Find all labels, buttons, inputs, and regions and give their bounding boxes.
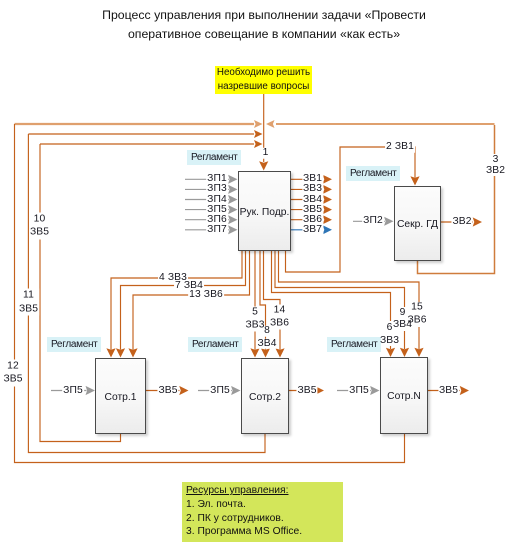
wire: 6 ЗВ3 (to Сотр.N) bbox=[272, 251, 396, 357]
stub label ЗВ2 (Секр. ГД out) bbox=[451, 217, 472, 228]
stub label ЗП5 bbox=[206, 204, 228, 215]
input stub ЗП5 (Сотр.1) bbox=[51, 386, 95, 395]
wire: 13 ЗВ6 (to Сотр.1) bbox=[128, 251, 249, 358]
wire: 5 ЗВ3 (to Сотр.2) bbox=[250, 251, 259, 358]
wire label 4 ЗВ3 bbox=[158, 273, 188, 284]
output stub ЗВ4 (Рук. Подр.) bbox=[291, 195, 332, 204]
output stub ЗВ3 (Рук. Подр.) bbox=[291, 185, 332, 194]
stub label ЗП2 bbox=[362, 216, 384, 227]
label Регламент (above Рук. Подр.) bbox=[187, 150, 241, 165]
stub label ЗВ7 bbox=[302, 225, 323, 236]
input stub ЗП1 (Рук. Подр.) bbox=[185, 175, 238, 184]
wire: request 1 (callout to Рук. Подр.) bbox=[259, 94, 268, 171]
wire: 10 ЗВ5 loop (Сотр.1 bottom to left riser) bbox=[40, 144, 121, 442]
stub label ЗВ3 bbox=[302, 184, 323, 195]
output stub ЗВ6 (Рук. Подр.) bbox=[291, 215, 332, 224]
stub label ЗП5 (Сотр.N) bbox=[348, 385, 370, 396]
process box: Рук. Подр. bbox=[238, 171, 291, 251]
wire label 15 ЗВ6 bbox=[407, 302, 426, 327]
wire label 7 ЗВ4 bbox=[174, 280, 204, 291]
input stub ЗП2 (Секр. ГД) bbox=[353, 217, 394, 226]
wire label 8 ЗВ4 bbox=[264, 326, 270, 337]
label gaps on Сотр.N wires bbox=[387, 302, 423, 346]
output stub ЗВ5 (Сотр.1) bbox=[146, 386, 189, 395]
wire: 9 ЗВ4 (to Сотр.N) bbox=[275, 251, 409, 357]
wire label 14 ЗВ6 bbox=[269, 305, 290, 330]
wire label 5 ЗВ3 bbox=[245, 307, 264, 332]
stub label ЗП3 bbox=[206, 184, 228, 195]
process box: Секр. ГД bbox=[394, 186, 441, 261]
label Регламент (above Сотр.2) bbox=[188, 337, 242, 352]
wire: 15 ЗВ6 (to Сотр.N) bbox=[279, 251, 424, 357]
output stub ЗВ2 (Секр. ГД) bbox=[441, 217, 482, 226]
wire: 11 ЗВ5 loop (Сотр.2 bottom to left riser) bbox=[28, 134, 265, 453]
stub label ЗВ5 bbox=[302, 204, 323, 215]
wire: 8 ЗВ4 (to Сотр.2) bbox=[260, 251, 270, 358]
wire label 9 ЗВ4 bbox=[393, 307, 412, 331]
label Регламент (above Сотр.1) bbox=[47, 337, 101, 352]
callout: need to solve questions (yellow) bbox=[215, 66, 312, 94]
stub label ЗП5 (Сотр.1) bbox=[62, 385, 84, 396]
stub label ЗП1 bbox=[206, 174, 228, 185]
stub label ЗВ5 (Сотр.2) bbox=[296, 385, 317, 396]
input stub ЗП6 (Рук. Подр.) bbox=[185, 215, 238, 224]
wire label 13 ЗВ6 bbox=[188, 290, 224, 301]
stub label ЗВ4 bbox=[302, 194, 323, 205]
process box: Сотр.2 bbox=[241, 358, 289, 434]
wire: 2 ЗВ1 (Рук. Подр. bottom to Секр. ГД top) bbox=[286, 147, 420, 272]
process box: Сотр.N bbox=[380, 357, 428, 434]
output stub ЗВ1 (Рук. Подр.) bbox=[291, 175, 332, 184]
wire: 3 ЗВ2 return loop (Секр. ГД bottom, right riser) bbox=[266, 120, 495, 274]
input stub ЗП3 (Рук. Подр.) bbox=[185, 185, 238, 194]
input stub ЗП5 (Сотр.N) bbox=[337, 386, 380, 395]
stub label ЗВ1 bbox=[302, 174, 323, 185]
wire label 3 ЗВ2 bbox=[485, 154, 506, 176]
input stub ЗП5 (Сотр.2) bbox=[198, 386, 241, 395]
wire: 12 ЗВ5 loop (Сотр.N bottom to left riser) bbox=[15, 124, 405, 463]
stub label ЗП4 bbox=[206, 194, 228, 205]
input stub ЗП7 (Рук. Подр.) bbox=[185, 225, 238, 234]
input stub ЗП4 (Рук. Подр.) bbox=[185, 195, 238, 204]
wire: 14 ЗВ6 (to Сотр.2) bbox=[264, 251, 285, 358]
label Регламент (above Секр. ГД) bbox=[346, 166, 400, 181]
wire: 10 ЗВ5 top horizontal into junction bbox=[40, 140, 263, 148]
stub label ЗП5 (Сотр.2) bbox=[209, 385, 231, 396]
resources note (green) bbox=[182, 482, 343, 542]
wire label 6 ЗВ3 bbox=[380, 321, 399, 347]
stub label ЗП7 bbox=[206, 225, 228, 236]
output stub ЗВ5 (Сотр.N) bbox=[428, 386, 469, 395]
title bbox=[9, 6, 510, 44]
stub label ЗВ5 (Сотр.1) bbox=[157, 385, 178, 396]
process box: Сотр.1 bbox=[95, 358, 146, 434]
wire label 10 ЗВ5 bbox=[29, 212, 50, 239]
output stub ЗВ7 (Рук. Подр.) bbox=[291, 225, 332, 234]
wire: 11 ЗВ5 top horizontal into junction bbox=[28, 130, 262, 138]
wire: 4 ЗВ3 (to Сотр.1) bbox=[106, 251, 242, 358]
wire label 1 bbox=[262, 148, 270, 159]
input stub ЗП5 (Рук. Подр.) bbox=[185, 205, 238, 214]
stub label ЗП6 bbox=[206, 214, 228, 225]
wire label 11 ЗВ5 bbox=[18, 289, 39, 316]
stub label ЗВ6 bbox=[302, 214, 323, 225]
wire: 12 ЗВ5 top horizontal (light) into junction bbox=[15, 120, 263, 128]
label Регламент (above Сотр.N) bbox=[327, 337, 381, 352]
wire: 7 ЗВ4 (to Сотр.1) bbox=[116, 251, 246, 358]
wire label 2 ЗВ1 bbox=[385, 142, 415, 153]
output stub ЗВ5 (Сотр.2) bbox=[289, 386, 324, 395]
output stub ЗВ5 (Рук. Подр.) bbox=[291, 205, 332, 214]
stub label ЗВ5 (Сотр.N) bbox=[438, 385, 459, 396]
wire label 12 ЗВ5 bbox=[2, 359, 23, 386]
